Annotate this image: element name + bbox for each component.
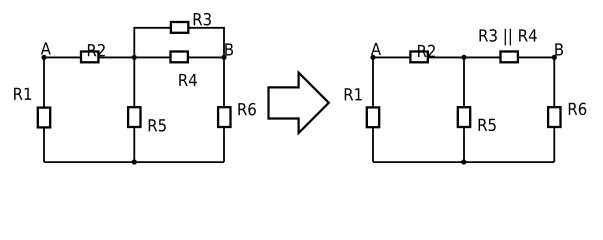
wire left: R5 branch vertical bbox=[133, 57, 135, 162]
resistor R2 (right) bbox=[410, 52, 427, 63]
resistor R6 (left) bbox=[218, 107, 230, 127]
label B (left) bbox=[225, 43, 233, 55]
arrow (simplification step) bbox=[269, 73, 329, 133]
resistor R6 (right) bbox=[548, 107, 560, 127]
wire left: R6 branch vertical bbox=[223, 57, 225, 162]
resistor R1 (left) bbox=[38, 108, 50, 128]
label R2 (left) bbox=[88, 44, 105, 56]
wire left: bottom rail bbox=[44, 161, 224, 163]
label R3 || R4 (right) bbox=[480, 29, 537, 46]
label A (left) bbox=[41, 42, 51, 54]
label R1 (right) bbox=[345, 88, 362, 100]
wire left: mid junction to B bbox=[134, 56, 224, 58]
label R2 (right) bbox=[418, 45, 435, 57]
label R4 (left) bbox=[179, 74, 197, 86]
junction dot mid-bottom (left) bbox=[132, 159, 137, 164]
junction dot mid-top (right) bbox=[461, 55, 466, 60]
label R5 (right) bbox=[479, 119, 496, 131]
resistor R5 (right) bbox=[458, 107, 470, 127]
wire right: R5 branch vertical bbox=[463, 57, 465, 162]
junction dot mid-bottom (right) bbox=[461, 159, 466, 164]
wire right: A to mid junction bbox=[373, 56, 464, 58]
wire left: A to mid junction bbox=[44, 56, 134, 58]
resistor R1 (right) bbox=[367, 107, 379, 127]
label R5 (left) bbox=[149, 119, 166, 131]
node A (right) junction dot bbox=[370, 55, 375, 60]
label R6 (right) bbox=[569, 103, 586, 116]
resistor R2 (left) bbox=[81, 52, 98, 63]
wire left: R3 bypass branch bbox=[134, 28, 224, 58]
wire right: R1 branch vertical bbox=[372, 57, 374, 162]
label A (right) bbox=[371, 43, 381, 55]
wire left: R1 branch vertical bbox=[43, 57, 45, 162]
label R6 (left) bbox=[238, 103, 255, 116]
wire right: R6 branch vertical bbox=[553, 57, 555, 162]
label B (right) bbox=[555, 43, 563, 55]
label R1 (left) bbox=[14, 88, 31, 100]
node A (left) junction dot bbox=[41, 55, 46, 60]
node B (right) junction dot bbox=[552, 55, 557, 60]
resistor R5 (left) bbox=[128, 107, 140, 127]
wire right: bottom rail bbox=[373, 161, 554, 163]
resistor R4 (left) bbox=[171, 52, 188, 63]
resistor R3 (left) bbox=[171, 22, 188, 33]
wire right: mid junction to B bbox=[464, 56, 554, 58]
node B (left) junction dot bbox=[221, 55, 226, 60]
resistor R3 parallel R4 equivalent (right) bbox=[501, 52, 518, 63]
junction dot mid-top (left) bbox=[132, 55, 137, 60]
label R3 (left) bbox=[194, 13, 211, 26]
